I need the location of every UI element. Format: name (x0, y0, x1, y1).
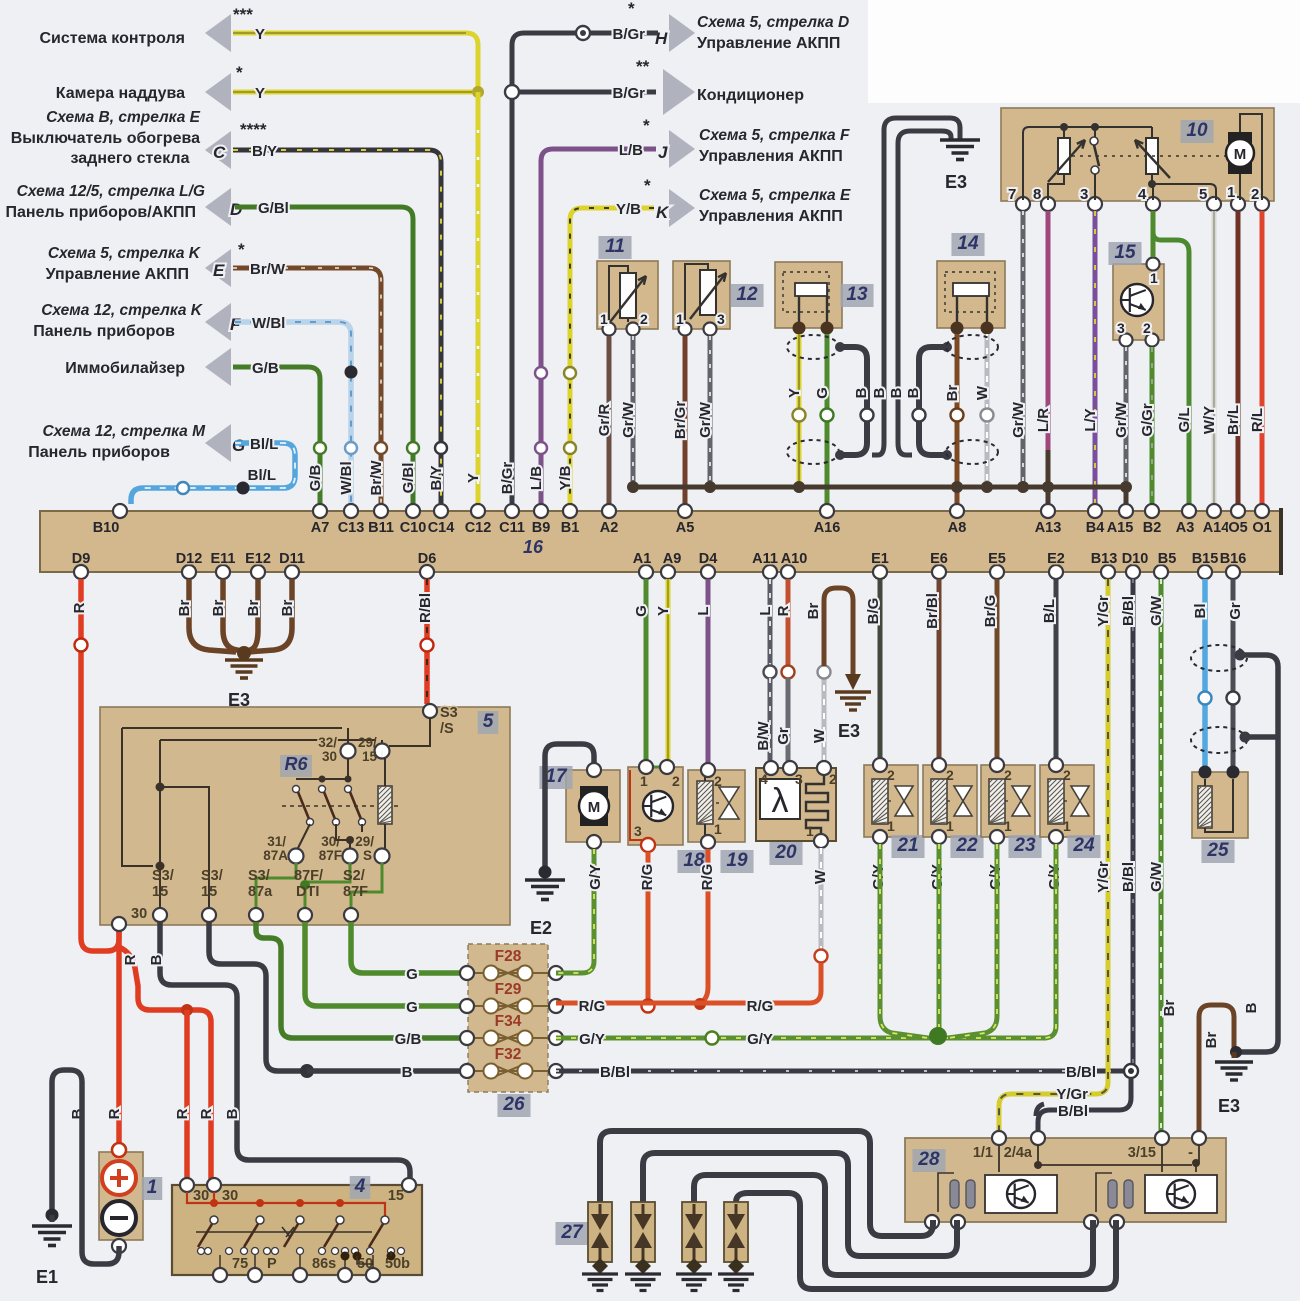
pin 3 of 18 (641, 838, 655, 852)
svg-text:L: L (757, 606, 774, 615)
svg-text:R/G: R/G (639, 864, 656, 891)
svg-text:Y: Y (465, 473, 482, 483)
svg-text:Br/W: Br/W (250, 261, 286, 278)
bus terminal A14 (top) (1207, 504, 1221, 518)
ring on Gr (1227, 692, 1240, 705)
svg-text:4: 4 (354, 1176, 366, 1197)
svg-text:S3/: S3/ (152, 868, 174, 884)
svg-text:*: * (628, 0, 635, 18)
svg-text:B: B (853, 387, 870, 398)
svg-text:G/B: G/B (395, 1031, 422, 1048)
ground under diode pack 27-1 (598, 1262, 602, 1272)
svg-text:B: B (402, 1064, 413, 1081)
svg-text:Схема 12, стрелка K: Схема 12, стрелка K (41, 302, 204, 319)
svg-text:2/4a: 2/4a (1004, 1145, 1033, 1161)
ring on R wire (75, 639, 88, 652)
junction dot E1 (46, 1209, 59, 1222)
pin 2 of 22 (932, 758, 946, 772)
svg-text:5: 5 (483, 711, 494, 732)
svg-text:W: W (811, 728, 828, 743)
wire G/Y from 23 to merge (948, 844, 997, 1038)
svg-text:G/Bl: G/Bl (258, 200, 289, 217)
svg-text:20: 20 (774, 842, 797, 863)
variable resistor R-right in U10 (1146, 138, 1158, 174)
pin b4 of 28 (bottom) (1110, 1215, 1124, 1229)
pin 30 (1) of switch 4 (180, 1178, 194, 1192)
wire B from diode pack 1 to 28 pin b1 (600, 1131, 933, 1236)
switch 4 link line (196, 1231, 372, 1233)
wire Br/W (E) horizontal + down to B11 (233, 268, 381, 504)
ring on right bracket (913, 409, 926, 422)
svg-text:19: 19 (726, 850, 748, 871)
svg-text:*: * (643, 116, 650, 135)
ground E3 (top) (940, 138, 980, 142)
connector arrow (left, C) (205, 131, 231, 169)
svg-text:Y: Y (255, 26, 265, 43)
wire B vertical (to E3 top, left) (872, 240, 884, 455)
svg-text:12: 12 (736, 284, 758, 305)
wire R->Gr from A10 to 20 pin3 (786, 579, 791, 666)
bus terminal O1 (top) (1255, 504, 1269, 518)
svg-text:32/: 32/ (318, 735, 337, 750)
wire B from diode pack 3 to 28 pin b3 (694, 1175, 1093, 1275)
svg-text:25: 25 (1206, 840, 1229, 861)
bus terminal D9 (bottom) (74, 565, 88, 579)
svg-text:L/B: L/B (528, 466, 545, 490)
bus terminal B5 (bottom) (1154, 565, 1168, 579)
wire Br from E12 to ground E3 (246, 579, 258, 652)
wire R/L from U10 pin2 to O1 (1260, 211, 1265, 504)
green link 29/S to S2/87F pin (351, 863, 382, 908)
wire R from D9 down to relay box pin 30 and battery (81, 579, 119, 951)
bus terminal O5 (top) (1231, 504, 1245, 518)
svg-text:R/Bl: R/Bl (417, 593, 434, 623)
wire Gr from B16 down to 25 (1231, 579, 1236, 766)
pin 1/1 of 28 (992, 1131, 1006, 1145)
svg-text:Выключатель обогрева: Выключатель обогрева (11, 130, 200, 147)
pin 2 of 18 (660, 760, 674, 774)
svg-text:4: 4 (1138, 186, 1147, 203)
switch 4 inner pin links (219, 1255, 221, 1268)
ignition switch box 4 (172, 1185, 422, 1275)
svg-text:3/15: 3/15 (1128, 1145, 1156, 1161)
junction dot Gr/W-11 (627, 481, 639, 493)
svg-text:B/Bl: B/Bl (600, 1064, 630, 1081)
wire B from S3/15(1) to ignition switch pin 15 (160, 922, 410, 1180)
svg-text:D6: D6 (418, 551, 437, 567)
svg-text:Br: Br (245, 600, 262, 617)
pin 1 of 23 (990, 830, 1004, 844)
svg-text:Y: Y (255, 85, 265, 102)
svg-text:J: J (658, 143, 668, 162)
wire Br/Gr from 12 pin1 to A5 (683, 336, 688, 504)
heater element in 22 (931, 779, 947, 824)
svg-text:Панель приборов/АКПП: Панель приборов/АКПП (6, 204, 196, 221)
svg-text:1: 1 (1150, 270, 1158, 286)
svg-text:R: R (71, 602, 88, 613)
bus terminal A1 (bottom) (639, 565, 653, 579)
svg-text:S3/: S3/ (201, 868, 223, 884)
svg-text:R/G: R/G (579, 998, 606, 1015)
heater element in 21 (872, 779, 888, 824)
svg-text:Br: Br (1161, 1000, 1178, 1017)
svg-text:3: 3 (717, 311, 725, 327)
component box 18 (sensor with transistor) (628, 767, 683, 845)
ring B/Bl junction (1124, 1064, 1138, 1078)
wire Br/G from E5 to 23 pin2 (995, 579, 1000, 758)
ring on Y/B upper (564, 367, 576, 379)
heater element in 23 (989, 779, 1005, 824)
svg-text:Br: Br (944, 385, 961, 402)
component box 13 (solenoid valve) (775, 262, 842, 328)
wire Y (Камера наддува) horizontal (233, 90, 472, 95)
junction dot W-14 (981, 481, 993, 493)
pin 4 of U10 (1146, 197, 1160, 211)
battery 1 (99, 1152, 143, 1240)
ring on L/B lower (535, 442, 547, 454)
ring on G wire 13 (821, 409, 834, 422)
svg-text:13: 13 (846, 284, 868, 305)
svg-text:3: 3 (795, 771, 803, 787)
svg-text:O5: O5 (1228, 520, 1247, 536)
junction dot Gr/W-15 (1120, 481, 1132, 493)
svg-text:1: 1 (640, 773, 648, 789)
svg-text:2: 2 (829, 771, 837, 787)
svg-text:S: S (363, 848, 372, 863)
bus terminal E5 (bottom) (990, 565, 1004, 579)
svg-text:E: E (213, 261, 225, 280)
svg-text:O1: O1 (1252, 520, 1271, 536)
bus terminal B10 (top) (113, 504, 127, 518)
pin 1 of 21 (873, 830, 887, 844)
wire R branch to ignition switch feed (117, 946, 211, 1180)
svg-text:Схема 5, стрелка E: Схема 5, стрелка E (699, 187, 851, 204)
wire R branch down to battery + (116, 930, 122, 1146)
svg-text:Иммобилайзер: Иммобилайзер (65, 360, 185, 377)
svg-text:D10: D10 (1122, 551, 1149, 567)
wire B/Bl from ring to 28 pin 2/4a (1038, 1078, 1131, 1132)
bus terminal B13 (bottom) (1101, 565, 1115, 579)
wire B/Bl row from F32 to junction ring (556, 1069, 1124, 1074)
svg-text:A15: A15 (1107, 520, 1134, 536)
svg-text:Br/G: Br/G (982, 595, 999, 628)
ground E1 (50, 1215, 55, 1222)
wire B/G from E1 to 21 pin2 (878, 579, 883, 758)
bus terminal E11 (bottom) (216, 565, 230, 579)
svg-text:R: R (106, 1108, 123, 1119)
svg-text:30: 30 (193, 1188, 209, 1204)
wire G/Y from 17 bottom to fuse F28 output (556, 849, 594, 973)
svg-text:87A: 87A (263, 848, 288, 863)
svg-text:Br: Br (1203, 1032, 1220, 1049)
green link 30/87F to 87F/DTI pin (305, 863, 350, 908)
svg-text:D9: D9 (72, 551, 91, 567)
pin 3/15 of 28 (1155, 1131, 1169, 1145)
pin (left) of 14 (951, 322, 964, 335)
ring on G/Y row (706, 1032, 719, 1045)
svg-text:A14: A14 (1203, 520, 1230, 536)
shield ellipse around Br/W pair 14 (upper) (946, 335, 998, 359)
bus terminal A10 (bottom) (781, 565, 795, 579)
pin left of 25 (1199, 766, 1212, 779)
svg-text:L: L (695, 606, 712, 615)
svg-text:**: ** (636, 57, 650, 76)
svg-text:Панель приборов: Панель приборов (28, 444, 170, 461)
battery - terminal (102, 1201, 136, 1235)
component box 23 (glow plug) (981, 765, 1035, 837)
svg-text:B/W: B/W (755, 721, 772, 751)
sensor pins left in 28 (950, 1180, 959, 1208)
svg-text:G/W: G/W (1148, 861, 1165, 892)
junction dot A13 drop (1042, 481, 1054, 493)
connector arrow H (669, 14, 695, 52)
svg-text:G: G (633, 605, 650, 617)
relay R6 internals (122, 727, 342, 729)
junction dot on Bl/L (237, 482, 250, 495)
bus terminal A3 (top) (1182, 504, 1196, 518)
svg-text:G/B: G/B (307, 465, 324, 492)
terminal 29/S inside R6 (375, 849, 390, 864)
bus terminal C12 (top) (471, 504, 485, 518)
svg-text:87F/: 87F/ (294, 868, 323, 884)
diode packs 27 label (555, 1222, 588, 1245)
pin 3 of 12 (704, 323, 717, 336)
junction dot on W/Bl (345, 366, 358, 379)
ring on A11 wire (764, 666, 777, 679)
connector arrow J (669, 130, 695, 168)
wire drop to A15 (1124, 487, 1129, 504)
ring on R/Bl (421, 639, 434, 652)
wire B/L from E2 to 24 pin2 (1054, 579, 1059, 758)
junction blob on B wire (300, 1064, 314, 1078)
wire L/B (J) horizontal + down to B9 (541, 149, 656, 504)
svg-text:G/Y: G/Y (747, 1031, 773, 1048)
svg-text:1: 1 (147, 1177, 158, 1198)
svg-text:A16: A16 (814, 520, 841, 536)
wire B from diode pack 4 to 28 pin b4 (736, 1193, 1116, 1289)
svg-text:G/Gr: G/Gr (1139, 403, 1156, 437)
svg-text:A5: A5 (676, 520, 695, 536)
svg-text:G/Y: G/Y (579, 1031, 605, 1048)
wire Y/Gr from B13 down to 28 pin 1/1 (999, 579, 1108, 1132)
connector ring W to R/G (815, 950, 828, 963)
pin 2/4a of 28 (1031, 1131, 1045, 1145)
wire B/Bl from D10 down to ring (1131, 579, 1136, 1064)
inner rail of U10 (1023, 127, 1152, 200)
wire Br from 14 left pin to A8 (955, 334, 960, 504)
switch 4 bottom pins (213, 1268, 227, 1282)
connector arrow (left, E) (205, 249, 231, 287)
svg-text:E11: E11 (211, 551, 236, 567)
connector arrow (left, F) (205, 303, 231, 341)
svg-text:C10: C10 (400, 520, 427, 536)
svg-text:W/Bl: W/Bl (252, 315, 285, 332)
svg-text:Схема 5, стрелка K: Схема 5, стрелка K (48, 245, 202, 262)
svg-text:B2: B2 (1143, 520, 1162, 536)
pin 2 of 23 (990, 758, 1004, 772)
svg-text:15: 15 (1114, 242, 1136, 263)
diode pack 27-2 (631, 1202, 655, 1262)
motor M in U10 (1228, 132, 1252, 174)
ring on G/Bl (407, 442, 419, 454)
wire Br/Bl from E6 to 22 pin2 (937, 579, 942, 758)
wire W/Bl (F) horizontal + down to C13 (235, 322, 351, 504)
wire Br/L from U10 pin1 to O5 (1236, 211, 1241, 504)
wire B/Gr (H) horizontal + down (512, 33, 658, 504)
svg-text:B/Gr: B/Gr (499, 462, 516, 495)
shield ellipse around Y/G pair (upper) (787, 335, 839, 359)
svg-text:Br/L: Br/L (1225, 405, 1242, 435)
ring on A10 wire (782, 666, 795, 679)
wire B shield bracket left of 13 (840, 347, 867, 455)
bus terminal C14 (top) (434, 504, 448, 518)
svg-text:14: 14 (957, 233, 979, 254)
battery + terminal (112, 1143, 126, 1157)
svg-text:Br: Br (805, 603, 822, 620)
svg-text:1: 1 (600, 311, 608, 327)
svg-text:***: *** (233, 5, 253, 24)
svg-text:G/B: G/B (252, 360, 279, 377)
svg-text:3: 3 (1080, 186, 1088, 203)
wire G/Y row from F34 to merge (556, 1036, 1046, 1041)
switch 4 blades (210, 1216, 218, 1224)
valve symbol in 13 (799, 288, 827, 322)
svg-text:G: G (406, 999, 418, 1016)
pin 1 of 18 (639, 760, 653, 774)
wire Y/B (K) horizontal + down to B1 (570, 208, 654, 504)
pin S3/15 (2) of box 5 (202, 908, 216, 922)
svg-text:Y: Y (786, 388, 803, 398)
svg-text:C: C (213, 143, 226, 162)
svg-text:30: 30 (322, 749, 337, 764)
svg-text:Y/Gr: Y/Gr (1095, 595, 1112, 627)
svg-text:Схема 12/5, стрелка L/G: Схема 12/5, стрелка L/G (17, 183, 205, 200)
ring on 20 pin2 wire (818, 666, 831, 679)
lambda symbol (760, 779, 800, 819)
bus terminal C10 (top) (406, 504, 420, 518)
svg-text:G: G (406, 966, 418, 983)
bus terminal B2 (top) (1145, 504, 1159, 518)
pin b1 of 28 (bottom) (925, 1215, 939, 1229)
wire Gr/W from U10 pin7 to junction (1021, 211, 1026, 482)
bus terminal B11 (top) (374, 504, 388, 518)
switch in U10 (1094, 127, 1096, 137)
pin 2 of 19 (701, 763, 715, 777)
svg-text:2: 2 (714, 773, 722, 789)
svg-text:A8: A8 (948, 520, 967, 536)
wire R/G from ring to R/G row then to F29 (556, 963, 821, 1003)
svg-text:B4: B4 (1086, 520, 1105, 536)
wire G from 87F/DTI to fuse F29 row (305, 922, 460, 1006)
svg-text:3: 3 (1117, 320, 1125, 336)
svg-text:86s: 86s (312, 1256, 336, 1272)
svg-text:F29: F29 (495, 981, 522, 998)
pin 4 of 20 (764, 761, 778, 775)
junction dot Gr/W-12 (704, 481, 716, 493)
svg-text:B/G: B/G (865, 598, 882, 625)
component box 12 (sensor) (673, 261, 730, 329)
diode pack 27-4 (724, 1202, 748, 1262)
R6 coil resistor (378, 786, 392, 824)
wire stub L/R to A13 (1046, 450, 1051, 504)
pin 5 of U10 (1207, 197, 1221, 211)
wire G/L from U10 pin4 branch to A3 (1153, 232, 1189, 504)
svg-text:Управление АКПП: Управление АКПП (697, 35, 840, 52)
ring on B/Gr (H) (576, 26, 590, 40)
green junction dot (300, 880, 310, 890)
junction dot Gr/W-10 (1017, 481, 1029, 493)
svg-text:Схема 12, стрелка M: Схема 12, стрелка M (42, 423, 206, 440)
svg-text:15: 15 (201, 884, 217, 900)
wire G/Y from 21 to merge (880, 844, 928, 1038)
svg-text:Bl/L: Bl/L (248, 467, 276, 484)
wire G/W from B5 down to 28 pin 3/15 (1159, 579, 1164, 1132)
svg-text:D11: D11 (279, 551, 305, 567)
pin 15 of switch 4 (402, 1178, 416, 1192)
svg-text:B/Y: B/Y (252, 143, 277, 160)
pin (right) of 14 (981, 322, 994, 335)
svg-text:C14: C14 (428, 520, 455, 536)
svg-text:L/Y: L/Y (1082, 408, 1099, 431)
connector arrow (Кондиционер) (663, 69, 695, 115)
svg-text:Система контроля: Система контроля (40, 30, 186, 47)
element in 25 (1198, 786, 1212, 828)
pin 30 of box 5 (112, 917, 126, 931)
connector arrow (left, Система контроля) (205, 14, 231, 52)
ring on left bracket (861, 409, 874, 422)
svg-text:C11: C11 (499, 520, 525, 536)
heater element in 24 (1048, 779, 1064, 824)
component box 25 (sensor) (1192, 772, 1248, 838)
wire B shield bracket right of 13 (919, 347, 947, 455)
bus terminal B15 (bottom) (1198, 565, 1212, 579)
svg-text:****: **** (240, 120, 267, 139)
svg-text:E3: E3 (945, 172, 967, 192)
pin 3 of 20 (783, 761, 797, 775)
mechanical link dashed in U10 (1072, 155, 1226, 157)
svg-text:R: R (122, 954, 139, 965)
horizontal bus wire (dark) above connector 16 (633, 485, 1126, 490)
pin 1 of 12 (679, 323, 692, 336)
pin 1 of 22 (932, 830, 946, 844)
terminal 30/87F inside R6 (343, 849, 358, 864)
wire L/Y from U10 pin3 to B4 (1093, 211, 1098, 504)
bus terminal B1 (top) (563, 504, 577, 518)
ground E3 (mid, lambda heater) (835, 690, 871, 693)
wire B from 17 top to ground E2 (545, 744, 594, 868)
resistor in 11 (620, 273, 636, 318)
svg-text:Br: Br (176, 600, 193, 617)
component box 10 (blower control unit) (1001, 108, 1274, 201)
svg-text:15: 15 (362, 749, 378, 764)
svg-text:B9: B9 (532, 520, 551, 536)
wire Br from D12 to ground E3 (189, 579, 236, 652)
svg-text:W: W (974, 385, 991, 400)
svg-text:A7: A7 (311, 520, 330, 536)
svg-text:E5: E5 (988, 551, 1006, 567)
R6 blade-to-terminal links (298, 824, 310, 848)
svg-text:Схема 5, стрелка F: Схема 5, стрелка F (699, 127, 850, 144)
shield ellipse around Br/W pair 14 (lower) (946, 440, 998, 464)
svg-text:Схема 5, стрелка D: Схема 5, стрелка D (697, 14, 849, 31)
wire R drop to 30 pin 1 (184, 1010, 190, 1180)
svg-text:24: 24 (1072, 835, 1095, 856)
connector arrow (left, Камера наддува) (205, 73, 231, 111)
svg-text:Br/Bl: Br/Bl (924, 593, 941, 629)
inner junction dots U10 (1060, 123, 1068, 131)
pin bottom of 17 (587, 835, 601, 849)
svg-text:B16: B16 (1220, 551, 1247, 567)
